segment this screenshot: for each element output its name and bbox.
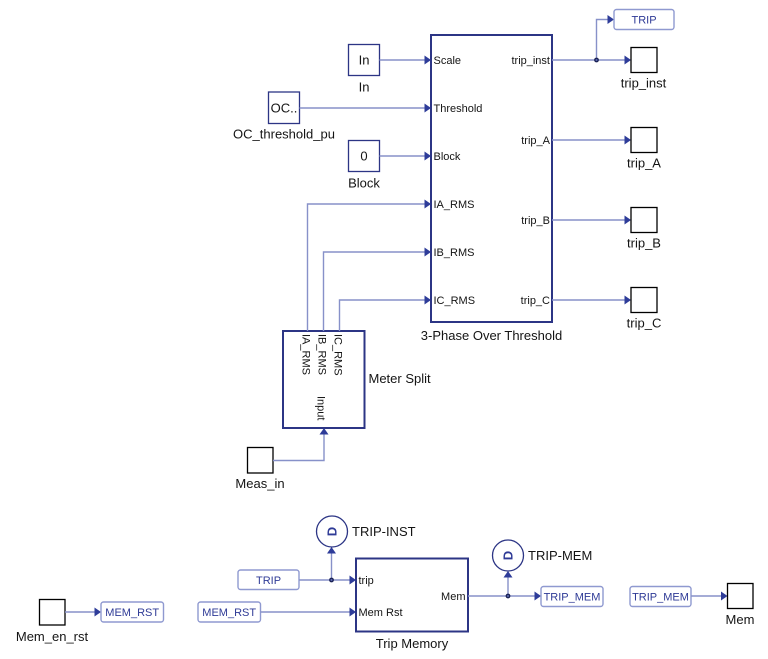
svg-text:trip_C: trip_C xyxy=(627,316,662,331)
wire Meter Split IB_RMS to U1 IB_RMS xyxy=(324,248,432,332)
from tag TRIP (bottom) xyxy=(238,570,299,590)
svg-text:IC_RMS: IC_RMS xyxy=(332,334,344,376)
wire trip_A out xyxy=(552,136,631,145)
svg-text:Mem: Mem xyxy=(441,591,465,603)
svg-text:Block: Block xyxy=(434,151,461,163)
svg-text:trip_B: trip_B xyxy=(521,215,550,227)
svg-text:Block: Block xyxy=(348,176,380,191)
svg-text:MEM_RST: MEM_RST xyxy=(202,607,256,619)
wire Block to Block port xyxy=(380,152,432,161)
svg-text:trip: trip xyxy=(359,575,374,587)
svg-text:In: In xyxy=(359,80,370,95)
goto tag TRIP_MEM (left) xyxy=(541,587,603,607)
svg-text:trip_inst: trip_inst xyxy=(511,55,550,67)
outport square trip_C xyxy=(627,288,662,331)
svg-text:IB_RMS: IB_RMS xyxy=(434,247,475,259)
svg-text:TRIP-INST: TRIP-INST xyxy=(352,524,416,539)
svg-text:In: In xyxy=(359,53,370,68)
svg-text:Threshold: Threshold xyxy=(434,103,483,115)
svg-text:Meas_in: Meas_in xyxy=(235,476,284,491)
outport square trip_B xyxy=(627,208,661,251)
svg-text:MEM_RST: MEM_RST xyxy=(105,607,159,619)
wire trip_C out xyxy=(552,296,631,305)
wire TRIP_MEM to Mem outport xyxy=(691,592,728,601)
svg-text:IA_RMS: IA_RMS xyxy=(300,334,312,375)
wire Mem_en_rst to MEM_RST goto xyxy=(65,608,101,617)
junction dot xyxy=(329,578,334,583)
goto tag TRIP (top) xyxy=(614,10,674,30)
svg-text:IA_RMS: IA_RMS xyxy=(434,199,475,211)
svg-text:Mem_en_rst: Mem_en_rst xyxy=(16,629,89,644)
wire TRIP to Trip Memory trip, branch to TRIP-INST scope xyxy=(299,547,356,585)
junction dot xyxy=(506,594,511,599)
inport square Mem_en_rst xyxy=(16,600,89,645)
outport square trip_A xyxy=(627,128,661,171)
viewer circle TRIP-INST xyxy=(317,516,416,547)
svg-text:Input: Input xyxy=(315,396,327,420)
svg-text:D: D xyxy=(501,551,516,560)
svg-text:IB_RMS: IB_RMS xyxy=(316,334,328,375)
svg-text:0: 0 xyxy=(360,149,367,164)
svg-text:trip_A: trip_A xyxy=(521,135,550,147)
viewer circle TRIP-MEM xyxy=(493,540,593,571)
svg-text:Mem: Mem xyxy=(726,612,755,627)
goto tag MEM_RST (left) xyxy=(101,602,164,622)
from tag TRIP_MEM (right) xyxy=(630,587,691,607)
svg-text:Scale: Scale xyxy=(434,55,462,67)
block U3 Trip Memory xyxy=(356,559,468,652)
wire Meas_in to Meter Split Input xyxy=(273,428,329,461)
wire trip_B out xyxy=(552,216,631,225)
svg-text:D: D xyxy=(325,527,340,536)
wire MEM_RST to Mem Rst xyxy=(261,608,357,617)
wire Meter Split IC_RMS to U1 IC_RMS xyxy=(340,296,432,332)
svg-text:TRIP: TRIP xyxy=(256,575,281,587)
block U1 3-Phase Over Threshold xyxy=(421,35,562,343)
wire Mem out with branch to TRIP-MEM scope xyxy=(468,571,541,601)
svg-text:OC..: OC.. xyxy=(271,101,298,116)
svg-text:Mem Rst: Mem Rst xyxy=(359,607,403,619)
block U2 Meter Split xyxy=(283,331,431,428)
inport square Meas_in xyxy=(235,448,284,492)
junction dot xyxy=(594,58,599,63)
svg-text:TRIP-MEM: TRIP-MEM xyxy=(528,548,592,563)
svg-text:Trip Memory: Trip Memory xyxy=(376,636,449,651)
wire trip_inst out with branch to TRIP goto xyxy=(552,15,631,65)
outport square Mem xyxy=(726,584,755,628)
svg-text:TRIP_MEM: TRIP_MEM xyxy=(632,592,689,604)
svg-text:IC_RMS: IC_RMS xyxy=(434,295,476,307)
svg-text:TRIP_MEM: TRIP_MEM xyxy=(544,592,601,604)
svg-text:trip_A: trip_A xyxy=(627,156,661,171)
svg-text:trip_inst: trip_inst xyxy=(621,76,667,91)
outport square trip_inst xyxy=(621,48,667,91)
svg-text:trip_B: trip_B xyxy=(627,236,661,251)
constant block Block (0) xyxy=(348,141,380,191)
wire Meter Split IA_RMS to U1 IA_RMS xyxy=(308,200,432,332)
svg-text:3-Phase Over Threshold: 3-Phase Over Threshold xyxy=(421,328,562,343)
from tag MEM_RST (second) xyxy=(198,602,261,622)
wire In to Scale xyxy=(380,56,432,65)
svg-text:Meter Split: Meter Split xyxy=(369,371,432,386)
svg-text:OC_threshold_pu: OC_threshold_pu xyxy=(233,127,335,142)
inport block In xyxy=(349,45,380,95)
svg-text:trip_C: trip_C xyxy=(521,295,550,307)
constant block OC_threshold_pu xyxy=(233,92,335,142)
wire OC_threshold_pu to Threshold xyxy=(300,104,432,113)
svg-text:TRIP: TRIP xyxy=(631,15,656,27)
